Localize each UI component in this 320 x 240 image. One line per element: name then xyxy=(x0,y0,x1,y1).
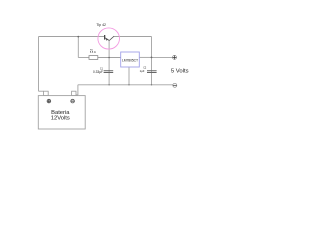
node junction output xyxy=(151,57,153,59)
battery plus mark xyxy=(47,99,51,103)
node junction C1 ground xyxy=(108,84,109,85)
svg-text:0.33µF: 0.33µF xyxy=(93,70,103,74)
wire battery negative riser xyxy=(76,85,78,95)
wire R1 riser from top rail xyxy=(77,37,79,58)
wire R1 right lead to regulator input xyxy=(98,57,121,59)
battery minus mark xyxy=(71,99,75,103)
wire R1 left lead xyxy=(78,57,89,59)
svg-text:LM7805CT: LM7805CT xyxy=(122,59,138,63)
wire battery positive jog xyxy=(39,90,44,92)
battery right terminal tab xyxy=(72,91,76,95)
transistor Q1 emitter diagonal with arrow xyxy=(105,38,109,41)
transistor Q1 highlight circle xyxy=(98,28,120,49)
wire transistor emitter down lead xyxy=(108,40,110,57)
capacitor C1 plates xyxy=(104,71,114,73)
node junction regulator ground xyxy=(128,84,129,85)
wire ground rail xyxy=(78,84,173,86)
node junction R1/C1/base xyxy=(108,57,110,59)
battery left terminal tab xyxy=(44,91,49,95)
wire regulator output xyxy=(139,56,151,58)
svg-text:5.5 Ω: 5.5 Ω xyxy=(90,51,96,54)
svg-text:Tip 42: Tip 42 xyxy=(96,23,106,27)
wire C2 branch to ground xyxy=(151,57,153,84)
capacitor C2 plates xyxy=(147,71,157,73)
wire output to positive terminal xyxy=(152,56,173,58)
voltage regulator U1 LM7805CT box xyxy=(121,52,140,67)
wire regulator ground pin xyxy=(128,67,130,85)
resistor R1 body xyxy=(89,56,98,60)
output negative terminal xyxy=(173,83,177,87)
output positive terminal xyxy=(173,55,177,59)
wire collector drop to output node xyxy=(151,37,153,58)
node junction C2 ground xyxy=(151,84,152,85)
wire C1 branch to ground xyxy=(108,58,110,85)
battery B1 box xyxy=(38,96,85,129)
wire left rail xyxy=(38,37,40,92)
svg-text:5 Volts: 5 Volts xyxy=(171,68,189,74)
node junction top rail / R1 riser xyxy=(77,36,79,38)
wire top rail left xyxy=(39,36,105,38)
svg-text:12Volts: 12Volts xyxy=(51,116,70,122)
transistor Q1 base bar xyxy=(104,35,105,40)
svg-text:1µF: 1µF xyxy=(140,69,145,73)
transistor Q1 collector diagonal xyxy=(109,36,114,40)
wire top rail right xyxy=(114,36,152,38)
